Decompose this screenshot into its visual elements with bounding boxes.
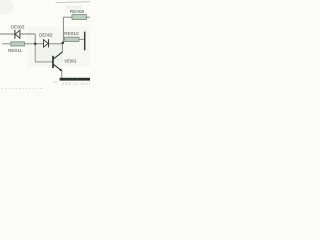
background xyxy=(0,0,90,90)
junction dot at collector tee xyxy=(62,42,65,45)
resistor RE008 label xyxy=(70,9,85,14)
diode DE003 (cathode left) xyxy=(15,30,20,39)
wire RE010 leads xyxy=(63,38,84,40)
wire RE008 row xyxy=(63,16,90,18)
wire emitter down xyxy=(61,71,63,79)
transistor VE001 label xyxy=(64,59,77,64)
diode DE002 (anode left, pointing right) xyxy=(44,39,49,47)
wire collector net vertical xyxy=(62,17,63,52)
net name text under bus xyxy=(62,82,90,86)
svg-text:ZHM-GJ SHJI: ZHM-GJ SHJI xyxy=(62,82,90,86)
wire base lead xyxy=(35,61,52,63)
svg-text:uw: uw xyxy=(53,80,58,84)
resistor RE010 body xyxy=(65,37,79,41)
svg-text:RE008: RE008 xyxy=(70,9,85,14)
svg-text:RE011: RE011 xyxy=(8,48,22,53)
diode DE003 label xyxy=(11,25,25,30)
ground bus (thick dark line) xyxy=(60,78,90,81)
svg-text:DE003: DE003 xyxy=(11,25,25,30)
resistor RE010 label xyxy=(64,31,79,36)
bottom-left dotted row xyxy=(2,87,45,89)
svg-text:VE001: VE001 xyxy=(64,59,77,64)
transistor VE001 xyxy=(53,52,62,71)
net label left of bus xyxy=(53,80,58,84)
diode DE002 label xyxy=(39,32,53,37)
svg-text:DE002: DE002 xyxy=(39,32,53,37)
wire A (top-left horizontal) xyxy=(0,33,35,35)
wire B (second horizontal) xyxy=(2,43,63,45)
junction dot at left cross xyxy=(34,43,37,46)
resistor RE011 body xyxy=(11,42,25,46)
faint grey header text xyxy=(66,4,82,9)
connector bus (right vertical dark line) xyxy=(84,32,86,51)
resistor RE008 body xyxy=(72,15,86,20)
wire vertical left net xyxy=(34,34,36,62)
svg-text:RE010: RE010 xyxy=(64,31,79,36)
faint top separator line xyxy=(56,1,91,4)
resistor RE011 label xyxy=(8,48,22,53)
